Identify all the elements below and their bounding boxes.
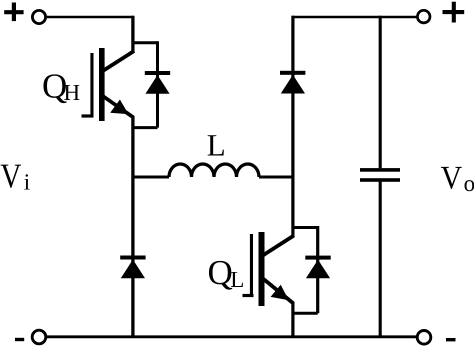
diode D3 (upper right)	[280, 71, 305, 94]
inductor L	[169, 164, 259, 177]
transistor Q_L collector diagonal	[264, 236, 294, 256]
transistor Q_L body bar	[259, 232, 265, 306]
terminal circle top-left	[32, 10, 45, 23]
diode D4 branch vertical	[316, 226, 319, 313]
transistor Q_L gate lead	[243, 294, 254, 297]
wire bottom rail	[46, 335, 417, 338]
wire Q_H emitter vertical down to bottom rail	[131, 116, 134, 337]
wire stub to D1 top	[133, 41, 158, 44]
terminal + sign top-left	[4, 3, 23, 22]
transistor Q_L gate line	[250, 234, 253, 297]
wire Q_L emitter vertical	[291, 302, 294, 337]
terminal + sign top-right	[443, 2, 465, 23]
svg-text:o: o	[464, 171, 474, 196]
diode D1 branch vertical	[156, 41, 159, 127]
wire stub from D4 bottom	[293, 312, 318, 315]
transistor Q_H gate line	[90, 53, 93, 117]
svg-text:Q: Q	[208, 253, 233, 292]
wire right-center vertical (D3 branch / Q_L collector)	[291, 16, 294, 237]
wire mid rail right	[259, 176, 293, 179]
svg-text:L: L	[207, 127, 226, 162]
wire top-left rail	[46, 16, 134, 19]
wire mid rail left	[133, 176, 169, 179]
svg-text:L: L	[230, 267, 244, 292]
diode D2 (lower left)	[120, 256, 145, 279]
terminal - sign bottom-right	[446, 338, 456, 341]
wire top-right rail	[292, 16, 418, 19]
transistor Q_H collector diagonal	[104, 51, 135, 71]
diode D1 (anti-parallel with Q_H)	[145, 71, 170, 94]
wire Q_H collector vertical	[131, 16, 134, 53]
transistor Q_H body bar	[99, 48, 105, 121]
svg-text:H: H	[64, 80, 81, 105]
transistor Q_H emitter arrow	[110, 100, 128, 115]
wire stub to D4 top	[293, 226, 318, 229]
wire capacitor branch top	[379, 16, 382, 169]
capacitor C plates	[360, 168, 400, 182]
terminal circle bottom-right	[417, 331, 431, 345]
svg-text:V: V	[0, 156, 21, 195]
transistor Q_H gate lead	[82, 114, 94, 117]
diode D4 (anti-parallel with Q_L)	[305, 256, 330, 279]
svg-text:V: V	[441, 160, 463, 196]
terminal circle bottom-left	[32, 330, 46, 344]
terminal - sign bottom-left	[15, 338, 24, 341]
terminal circle top-right	[417, 10, 430, 23]
svg-text:i: i	[24, 169, 30, 194]
wire capacitor branch bottom	[379, 182, 382, 337]
transistor Q_L emitter arrow	[271, 285, 289, 300]
transistor Q_H emitter diagonal	[104, 97, 134, 118]
transistor Q_L emitter diagonal	[264, 279, 294, 304]
wire stub from D1 bottom	[133, 126, 158, 129]
